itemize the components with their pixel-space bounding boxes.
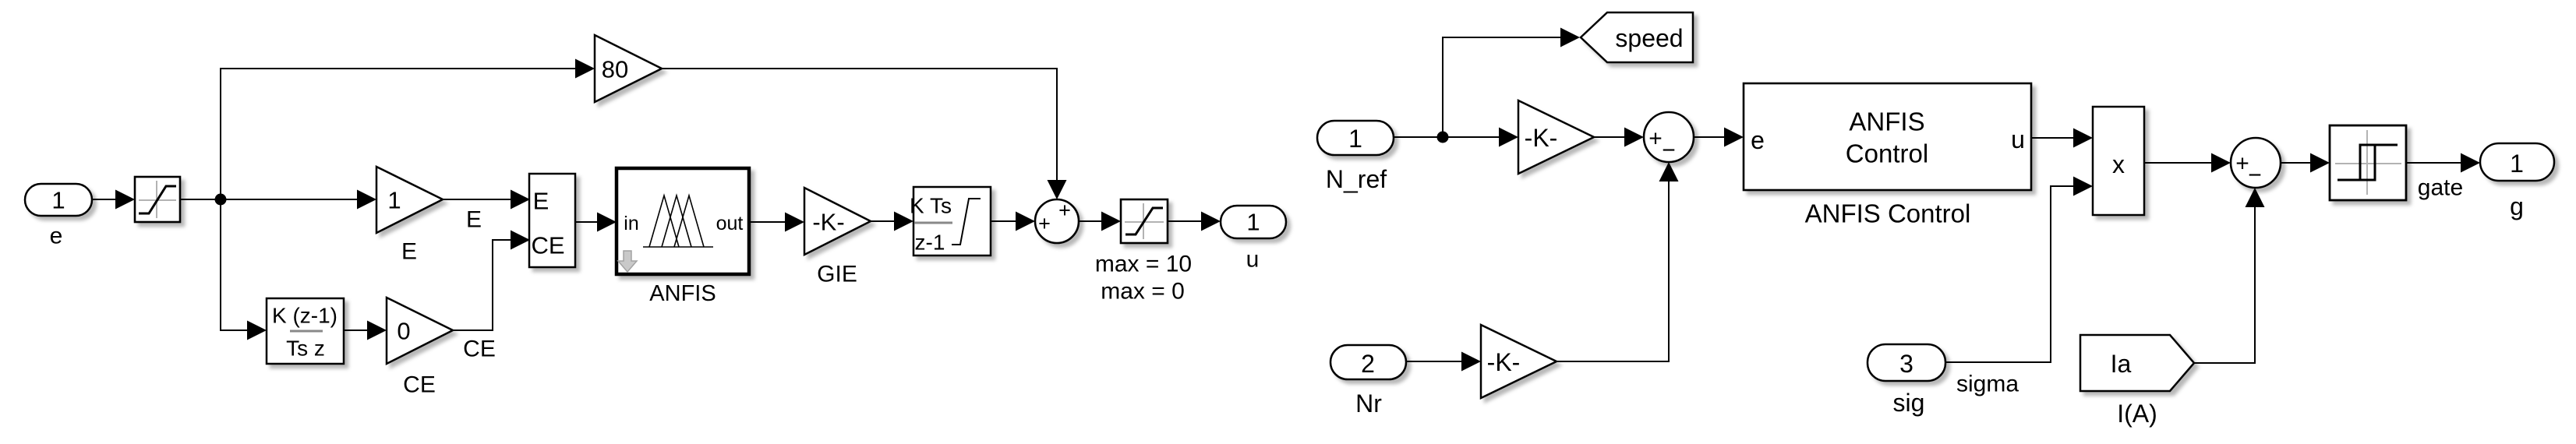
- svg-text:sigma: sigma: [1956, 372, 2019, 397]
- wire sig to product, label sigma: [1945, 177, 2093, 397]
- svg-text:-K-: -K-: [1487, 348, 1521, 376]
- gain 80: [595, 35, 662, 102]
- saturation block Saturation2 with limit labels: [1095, 199, 1192, 305]
- sum block (right diagram 1): [1644, 112, 1694, 164]
- svg-text:2: 2: [1361, 350, 1375, 378]
- svg-text:3: 3: [1899, 350, 1913, 378]
- wire GIE to integrator: [871, 212, 913, 231]
- svg-text:K (z-1): K (z-1): [272, 304, 337, 328]
- discrete derivative block CE: K (z-1)/Ts z: [267, 298, 344, 364]
- gain -K- (Nr path): [1481, 325, 1557, 398]
- svg-text:Ts z: Ts z: [286, 337, 325, 361]
- product block x: [2093, 107, 2144, 215]
- svg-text:−: −: [1662, 138, 1676, 164]
- svg-text:E: E: [466, 207, 482, 233]
- sum block (right diagram 2): [2231, 138, 2281, 189]
- svg-text:CE: CE: [403, 372, 436, 398]
- wire N_ref to gain -K- with junction: [1394, 128, 1518, 147]
- svg-text:−: −: [2248, 163, 2262, 189]
- svg-text:GIE: GIE: [817, 262, 857, 287]
- svg-text:u: u: [2011, 125, 2025, 153]
- wire sum to ANFIS Control: [1694, 128, 1744, 147]
- subsystem ANFIS Control: [1744, 83, 2031, 228]
- gain E (value 1): [376, 167, 443, 265]
- mux subsystem E/CE: [529, 174, 575, 267]
- wire Ia to sum (right diagram 2): [2194, 188, 2265, 363]
- wire relay to outport g, label gate: [2406, 153, 2480, 201]
- svg-text:1: 1: [1246, 209, 1260, 236]
- svg-text:E: E: [401, 239, 417, 265]
- wire saturation2 to outport u: [1168, 212, 1221, 231]
- svg-text:-K-: -K-: [812, 209, 844, 236]
- goto tag speed: [1581, 12, 1693, 62]
- svg-text:N_ref: N_ref: [1326, 165, 1387, 193]
- wire sum to saturation2: [1079, 212, 1121, 231]
- wire gain to sum (right diagram 1): [1594, 128, 1644, 147]
- svg-text:out: out: [716, 213, 744, 234]
- wire gain CE to mux, label CE: [453, 231, 530, 362]
- inport 1 (N_ref): [1317, 121, 1394, 193]
- svg-text:0: 0: [397, 318, 410, 345]
- wire Nr to gain -K-: [1406, 352, 1481, 372]
- svg-text:ANFIS: ANFIS: [1849, 107, 1924, 136]
- discrete-time integrator K Ts/(z-1): [910, 187, 991, 255]
- svg-text:ANFIS: ANFIS: [649, 281, 716, 306]
- svg-text:+: +: [1038, 212, 1051, 235]
- wire e to saturation: [92, 190, 135, 210]
- svg-text:g: g: [2510, 192, 2524, 220]
- wire ANFIS Control u to product: [2031, 129, 2093, 148]
- svg-text:e: e: [50, 224, 63, 249]
- relay block: [2330, 125, 2406, 200]
- svg-text:I(A): I(A): [2117, 400, 2157, 428]
- svg-text:K Ts: K Ts: [910, 194, 952, 218]
- sum block (left diagram): [1035, 199, 1079, 243]
- svg-text:1: 1: [2510, 150, 2524, 178]
- wire integrator to sum: [991, 212, 1035, 231]
- gain GIE: [804, 188, 871, 287]
- svg-text:Nr: Nr: [1355, 389, 1382, 418]
- wire gain 80 to sum (top): [662, 69, 1067, 199]
- svg-text:80: 80: [602, 56, 628, 83]
- svg-text:1: 1: [1348, 125, 1362, 153]
- gain -K- (N_ref path): [1518, 100, 1594, 174]
- wire saturation to gain E with junction: [180, 190, 376, 210]
- inport 1 (e): [25, 184, 92, 249]
- svg-text:sig: sig: [1893, 389, 1925, 417]
- wire product to sum (right diagram 2): [2144, 153, 2231, 173]
- svg-text:e: e: [1751, 126, 1765, 154]
- wire gain Nr to sum bottom: [1557, 162, 1679, 361]
- svg-text:-K-: -K-: [1525, 124, 1558, 152]
- junction node (N_ref): [1437, 132, 1449, 143]
- inport 2 (Nr): [1330, 345, 1406, 418]
- svg-text:1: 1: [387, 187, 401, 214]
- wire junction down to discrete derivative: [221, 199, 267, 340]
- svg-text:z-1: z-1: [915, 231, 945, 255]
- svg-text:x: x: [2112, 150, 2125, 178]
- gain CE (value 0): [387, 298, 453, 398]
- wire gain E to mux, label E: [443, 190, 530, 233]
- svg-text:max = 10: max = 10: [1095, 252, 1192, 277]
- saturation block Saturation1: [135, 177, 180, 222]
- svg-text:Ia: Ia: [2111, 350, 2132, 378]
- svg-text:CE: CE: [463, 337, 496, 362]
- svg-text:CE: CE: [531, 232, 564, 259]
- wire sum to relay: [2281, 153, 2330, 173]
- ANFIS fuzzy controller block: [617, 168, 749, 306]
- wire junction to speed goto tag: [1443, 28, 1580, 138]
- outport 1 (g): [2480, 143, 2554, 220]
- wire junction up to gain 80: [221, 59, 595, 200]
- wire derivative to gain CE: [344, 321, 387, 340]
- svg-text:E: E: [533, 188, 549, 215]
- svg-text:ANFIS Control: ANFIS Control: [1805, 199, 1971, 228]
- svg-text:+: +: [1648, 126, 1663, 152]
- svg-text:u: u: [1246, 247, 1260, 273]
- wire ANFIS to gain GIE: [749, 213, 804, 232]
- svg-text:speed: speed: [1615, 24, 1683, 52]
- svg-text:+: +: [1058, 199, 1071, 222]
- outport 1 (u): [1221, 206, 1286, 273]
- svg-text:1: 1: [51, 187, 65, 214]
- svg-text:+: +: [2235, 151, 2249, 177]
- wire mux to ANFIS: [575, 213, 617, 232]
- from tag Ia: [2080, 335, 2194, 428]
- inport 3 (sig): [1868, 344, 1945, 417]
- svg-text:gate: gate: [2418, 175, 2463, 201]
- svg-text:in: in: [624, 213, 638, 234]
- junction node: [215, 194, 227, 206]
- svg-text:max = 0: max = 0: [1101, 279, 1185, 305]
- svg-text:Control: Control: [1846, 139, 1928, 168]
